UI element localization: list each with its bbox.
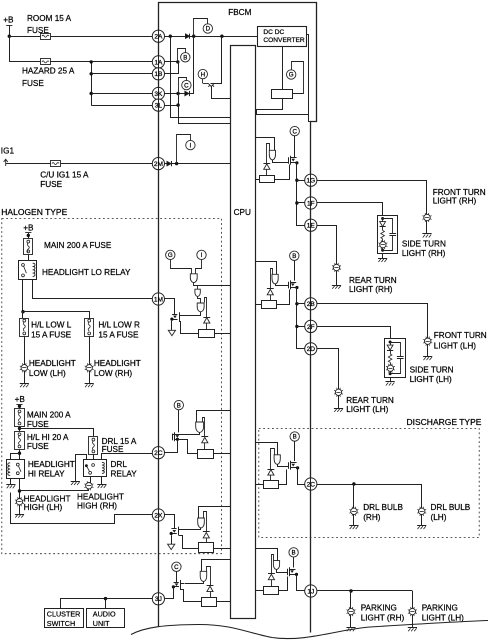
svg-text:IG1: IG1 — [1, 147, 15, 156]
diode clamp cell E — [267, 144, 270, 164]
svg-text:B: B — [292, 253, 296, 260]
wire FET out to 1J — [297, 575, 305, 591]
svg-text:1G: 1G — [306, 178, 315, 185]
wire hazard fuse to 1A — [9, 61, 152, 63]
wire FET source to 2C — [165, 440, 178, 453]
svg-text:DRL: DRL — [111, 460, 128, 469]
svg-text:LIGHT (LH): LIGHT (LH) — [410, 375, 452, 384]
svg-text:CLUSTER: CLUSTER — [47, 609, 81, 618]
wire 1B joins 1A — [165, 62, 179, 74]
svg-text:2F: 2F — [307, 324, 315, 331]
bulb REAR TURN LIGHT RH — [333, 264, 339, 270]
connector 1F — [305, 197, 317, 209]
svg-text:2C: 2C — [154, 450, 163, 457]
FET Q8 (parking driver) — [287, 569, 289, 576]
letter B circle (cell G discharge) — [290, 432, 299, 441]
wire capsule to FET drain cell D — [185, 582, 204, 584]
svg-text:15 A FUSE: 15 A FUSE — [31, 330, 72, 339]
svg-text:FUSE: FUSE — [22, 79, 44, 88]
svg-text:2X: 2X — [154, 512, 163, 519]
wire +B to main fuse — [28, 233, 30, 239]
fuse C/U IG1 15A — [51, 161, 61, 167]
svg-text:REAR TURN: REAR TURN — [346, 396, 394, 405]
svg-text:1J: 1J — [307, 588, 314, 595]
connector 2F — [305, 320, 317, 332]
DISCHARGE TYPE dashed box — [259, 428, 479, 537]
wire fuse to headlight low LH — [24, 336, 26, 365]
wire CPU corner to trunk — [256, 115, 309, 122]
svg-text:SWITCH: SWITCH — [47, 619, 75, 628]
svg-text:HEADLIGHT: HEADLIGHT — [28, 460, 75, 469]
SIDE TURN LIGHT LH assembly — [385, 339, 406, 378]
svg-text:AUDIO: AUDIO — [93, 609, 116, 618]
FET Q4 (3J driver) — [174, 582, 179, 584]
wire HI relay to headlight high LH — [19, 478, 21, 498]
svg-text:+B: +B — [23, 224, 34, 233]
wire diode to resistor — [206, 323, 208, 329]
diode clamp cell F — [271, 269, 273, 289]
svg-text:I: I — [201, 252, 203, 259]
svg-text:MAIN 200 A FUSE: MAIN 200 A FUSE — [44, 241, 112, 250]
gate capsule cell F — [272, 274, 278, 284]
connector 1E — [305, 219, 317, 231]
letter I circle and tap — [177, 135, 191, 164]
transistor H driver — [202, 79, 204, 84]
wire capsule to gate — [173, 433, 200, 437]
wire FET source to resistor cell D — [181, 589, 202, 602]
gate capsule cell G — [274, 455, 280, 465]
svg-text:1B: 1B — [154, 71, 163, 78]
wire 2X return path — [88, 489, 90, 491]
wire capsule to gate cell G — [278, 465, 289, 467]
svg-text:HIGH (RH): HIGH (RH) — [77, 501, 117, 510]
wire to 1B — [91, 73, 152, 75]
gate capsule 3 — [197, 303, 204, 312]
wire resistor to FET source cell F — [277, 290, 290, 305]
letter D circle and tap — [194, 19, 208, 37]
connector 2D — [305, 343, 317, 355]
lamp HEADLIGHT LOW LH — [21, 365, 27, 371]
sense resistor cell B — [198, 450, 214, 459]
CLUSTER SWITCH box — [45, 609, 84, 628]
wire diode to resistor cell F — [270, 295, 272, 301]
letter I circle (halogen logic) — [197, 250, 206, 259]
wire diode to resistor cell G — [270, 475, 272, 481]
diode clamp cell H — [272, 555, 274, 574]
wire FET out to 2B 2F 2D — [297, 288, 305, 349]
svg-text:2B: 2B — [307, 301, 316, 308]
svg-text:+B: +B — [3, 16, 14, 25]
wire resistor to CPU — [214, 333, 230, 335]
wire resistor to CPU cell G — [255, 484, 264, 486]
svg-text:HEADLIGHT: HEADLIGHT — [29, 359, 76, 368]
wire CPU to capsule cell E — [256, 138, 275, 151]
svg-text:HEADLIGHT: HEADLIGHT — [94, 359, 141, 368]
connector 2A — [152, 30, 164, 42]
diode clamp cell C — [204, 512, 207, 532]
svg-text:G: G — [289, 72, 294, 79]
ground rear turn LH — [338, 396, 340, 409]
svg-text:G: G — [168, 252, 173, 259]
wire +B stem — [9, 25, 11, 62]
svg-text:(RH): (RH) — [363, 513, 381, 522]
wire DRL fuse to relay — [93, 454, 95, 459]
sense resistor cell D — [202, 598, 217, 607]
diode clamp cell B — [203, 418, 205, 437]
ground headlight low LH — [24, 371, 26, 384]
svg-text:DRL BULB: DRL BULB — [363, 503, 403, 512]
wire DRL relay to headlight high RH — [90, 476, 92, 482]
svg-text:3J: 3J — [155, 596, 162, 603]
wire capsule to gate cell F — [276, 284, 289, 286]
gate capsule cell E — [269, 150, 275, 160]
HALOGEN TYPE dashed box — [2, 219, 222, 554]
wire LO relay coil to 1M — [33, 280, 153, 299]
FET Q5 (turn RH driver) — [288, 157, 290, 164]
bulb FRONT TURN LIGHT LH — [425, 338, 431, 344]
svg-text:ROOM 15 A: ROOM 15 A — [27, 14, 72, 23]
letter B circle (cell H parking) — [289, 548, 298, 557]
svg-text:CONVERTER: CONVERTER — [263, 37, 305, 44]
svg-text:C: C — [174, 564, 179, 571]
wire capsule to gate cell H — [277, 570, 288, 573]
bulb DRL RH — [351, 508, 357, 514]
fuse H/L HI 20A — [15, 432, 25, 450]
ground side turn RH — [382, 254, 384, 259]
gate capsule cell H — [273, 561, 279, 570]
svg-text:LIGHT (RH): LIGHT (RH) — [349, 285, 393, 294]
diode on 2M line — [167, 161, 171, 166]
wire fuse to headlight low RH — [89, 336, 91, 365]
wire +B to main fuse 2 — [19, 404, 21, 408]
wire diode to resistor cell D — [210, 592, 212, 598]
wire resistor to CPU cell B — [213, 453, 230, 455]
svg-text:LIGHT (RH): LIGHT (RH) — [361, 614, 405, 623]
svg-text:1F: 1F — [307, 200, 315, 207]
ground headlight low RH — [89, 371, 91, 384]
svg-text:FBCM: FBCM — [228, 8, 251, 17]
wire 2A branch down to CPU — [171, 37, 231, 118]
wire CPU to cell B capsule — [197, 411, 231, 423]
wire resistor to CPU cell C — [213, 548, 230, 550]
wire DC-DC bottom to resistor — [282, 46, 284, 90]
fuse ROOM 15A — [41, 34, 51, 40]
wire 2X to FET — [165, 515, 175, 529]
svg-text:C: C — [184, 82, 189, 89]
svg-text:RELAY: RELAY — [111, 470, 138, 479]
wire CPU to capsule cell G — [256, 443, 278, 455]
svg-text:B: B — [292, 550, 296, 557]
letter C circle (cell E) — [290, 126, 299, 135]
FET Q3 (2X driver) — [171, 528, 176, 530]
FET Q1 (1M driver) — [172, 314, 177, 316]
letter C circle and tap — [179, 78, 187, 94]
gate capsule 2 — [195, 289, 200, 296]
bulb FRONT TURN LIGHT RH — [424, 214, 430, 220]
svg-text:B: B — [293, 434, 297, 441]
svg-text:FRONT TURN: FRONT TURN — [434, 331, 487, 340]
svg-text:LIGHT (LH): LIGHT (LH) — [346, 405, 388, 414]
ground DRL coil — [101, 476, 103, 484]
wire 2M into module — [165, 163, 231, 165]
bulb REAR TURN LIGHT LH — [335, 389, 341, 395]
page break curve — [131, 621, 488, 639]
wire LO relay contact down — [22, 280, 24, 312]
svg-text:DC DC: DC DC — [263, 29, 284, 36]
wire capsule to FET drain — [182, 528, 201, 530]
svg-text:B: B — [183, 55, 187, 62]
wire 3J to FET — [165, 587, 174, 599]
wire B to FET cell H — [293, 557, 295, 567]
ground arrow cell C — [171, 535, 173, 544]
svg-text:LIGHT (LH): LIGHT (LH) — [434, 341, 476, 350]
letter H circle — [198, 69, 207, 78]
svg-text:B: B — [177, 402, 181, 409]
svg-text:HI RELAY: HI RELAY — [28, 470, 65, 479]
wire FET source to resistor — [180, 321, 199, 334]
connector 1M — [152, 293, 164, 305]
svg-text:+B: +B — [15, 395, 26, 404]
wire 2A diode branch down to 3K diode node — [193, 36, 195, 93]
FET Q6 (turn LH driver) — [288, 282, 290, 289]
diode clamp cell G — [271, 449, 275, 470]
svg-text:2A: 2A — [154, 34, 163, 41]
ground front turn RH — [426, 221, 428, 234]
wire 1E to rear turn RH — [317, 226, 337, 265]
ground rear turn RH — [336, 271, 338, 286]
fuse H/L LOW L 15A — [20, 319, 29, 337]
wire branch to DRL fuse — [20, 429, 94, 437]
gate capsule cell D — [200, 571, 207, 581]
wire main fuse to H/L HI fuse — [19, 426, 21, 432]
wire high lamps link — [20, 489, 89, 491]
letter G circle (DC-DC) — [287, 70, 296, 79]
wire FET out to 1G 1F 1E — [297, 163, 305, 226]
wire 3J to cluster switch and audio unit — [61, 599, 153, 609]
wire main fuse to LO relay — [28, 254, 30, 260]
bulb PARKING LIGHT LH — [409, 608, 415, 614]
wire 1G to front turn RH — [317, 181, 427, 215]
fuse H/L LOW R 15A — [85, 319, 94, 337]
wire resistor to FET source cell E — [275, 165, 290, 180]
gate capsule cell C — [198, 518, 205, 528]
connector 1J — [305, 585, 317, 597]
svg-text:H: H — [201, 71, 205, 78]
wire CPU to cell A gates — [198, 285, 231, 287]
ground HI relay coil — [10, 478, 12, 485]
sense resistor R1 — [199, 330, 215, 338]
svg-text:(LH): (LH) — [431, 513, 447, 522]
letter B circle and tap — [178, 49, 186, 62]
wire to H/L LOW L fuse — [22, 312, 24, 318]
relay HEADLIGHT HI — [7, 460, 25, 479]
wire H transistor to CPU — [212, 87, 231, 99]
svg-text:DRL BULB: DRL BULB — [431, 503, 471, 512]
svg-text:LIGHT (RH): LIGHT (RH) — [433, 197, 477, 206]
wire 1A to tap — [165, 61, 178, 63]
CPU block — [231, 46, 256, 619]
svg-text:HAZARD 25 A: HAZARD 25 A — [22, 67, 75, 76]
connector 2B — [305, 298, 317, 310]
hazard feed vertical — [91, 62, 93, 105]
wire G/I to gate funnel — [171, 260, 192, 272]
connector 2C — [305, 478, 317, 490]
wire 2B to front turn LH — [317, 304, 428, 339]
lamp HEADLIGHT LOW RH — [86, 365, 92, 371]
diode D1 clamp — [205, 298, 207, 318]
ground DRL RH — [353, 515, 355, 526]
wire DRL coil to 2C — [102, 454, 153, 460]
svg-text:2M: 2M — [154, 161, 163, 168]
connector 1G — [305, 174, 317, 186]
wire FET out to 2C — [298, 468, 305, 485]
svg-text:D: D — [206, 26, 211, 33]
ground headlight high LH — [19, 505, 21, 514]
wire B to FET drain — [178, 410, 180, 433]
svg-text:3K: 3K — [154, 91, 163, 98]
FBCM module outline — [159, 3, 317, 633]
G bracket to resistor — [292, 62, 304, 94]
svg-text:1M: 1M — [154, 296, 163, 303]
relay DRL — [84, 460, 107, 477]
wire resistor to FET source cell G — [279, 470, 287, 485]
connector 1A — [152, 56, 164, 68]
wire resistor to CPU cell D — [217, 601, 231, 603]
wire resistor to CPU cell E — [255, 179, 259, 181]
wire B to FET cell G — [294, 441, 296, 461]
lamp HEADLIGHT HIGH RH — [86, 483, 92, 489]
gate capsule cell B — [196, 422, 204, 432]
wire diode to resistor cell E — [266, 169, 268, 175]
wire FET source to resistor cell C — [179, 536, 199, 549]
wire C to FET cell E — [294, 136, 296, 158]
AUDIO UNIT box — [87, 609, 125, 628]
svg-text:FUSE: FUSE — [102, 445, 124, 454]
wire DRL contact common to ground — [76, 455, 87, 482]
IG1 arrow — [4, 159, 8, 166]
diode on 3K line — [185, 91, 189, 96]
connector 2M — [152, 158, 164, 170]
svg-text:H/L LOW L: H/L LOW L — [31, 321, 72, 330]
fuse DRL 15A — [89, 437, 98, 455]
svg-text:HALOGEN TYPE: HALOGEN TYPE — [1, 207, 67, 217]
svg-text:DISCHARGE TYPE: DISCHARGE TYPE — [407, 417, 482, 427]
relay HEADLIGHT LO — [19, 261, 37, 280]
wire 3K-3L link — [178, 94, 180, 106]
wire capsule to gate cell E — [273, 160, 289, 163]
wire 2F to side turn LH — [317, 327, 391, 339]
wire CPU to capsule cell H — [256, 549, 278, 561]
wire to 3L — [91, 105, 152, 107]
svg-text:PARKING: PARKING — [361, 603, 397, 612]
wire 1J to parking lights — [317, 590, 413, 592]
wire diode to resistor cell H — [271, 580, 273, 586]
svg-text:LIGHT (LH): LIGHT (LH) — [422, 614, 464, 623]
diode on 2A line — [185, 34, 189, 39]
SIDE TURN LIGHT RH assembly — [378, 216, 398, 254]
wire resistor to CPU cell H — [255, 590, 263, 592]
svg-text:HEADLIGHT: HEADLIGHT — [77, 493, 124, 502]
wire CPU to cell C capsule — [199, 507, 231, 519]
bulb PARKING LIGHT RH — [348, 608, 354, 614]
wire 2D to rear turn LH — [317, 349, 339, 390]
ground parking RH — [350, 615, 352, 628]
svg-text:15 A FUSE: 15 A FUSE — [98, 330, 139, 339]
wire resistor to FET source cell H — [279, 577, 288, 591]
sense resistor cell C — [199, 543, 214, 553]
connector 2X — [152, 509, 164, 521]
svg-text:C/U IG1 15 A: C/U IG1 15 A — [40, 170, 89, 179]
svg-text:H/L HI 20 A: H/L HI 20 A — [27, 433, 69, 442]
wire B to FET cell F — [294, 261, 296, 281]
wire from DC-DC right to trunk — [307, 35, 311, 122]
svg-text:HIGH (LH): HIGH (LH) — [24, 503, 63, 512]
sense resistor cell E — [260, 176, 275, 183]
svg-text:C: C — [292, 128, 297, 135]
wire diode to resistor cell C — [206, 538, 208, 543]
wire 3L to CPU — [165, 105, 179, 107]
lamp HEADLIGHT HIGH LH — [16, 499, 22, 505]
ground arrow cell A — [171, 321, 173, 331]
sense resistor cell H — [264, 587, 279, 595]
svg-text:FRONT TURN: FRONT TURN — [433, 188, 486, 197]
connector 3K — [152, 87, 164, 99]
svg-text:LIGHT (RH): LIGHT (RH) — [402, 249, 446, 258]
FET Q2 (2C driver) — [172, 434, 174, 441]
svg-text:1A: 1A — [154, 59, 163, 66]
wire +B to room fuse to 2A — [9, 36, 152, 38]
letter C circle (cell D) — [172, 562, 181, 571]
wire CPU to capsule cell F — [256, 262, 277, 275]
sense resistor cell F — [262, 301, 277, 309]
diode clamp cell D — [207, 567, 211, 586]
wire FET drain to capsule3 — [183, 312, 201, 316]
letter B circle (cell F) — [290, 251, 299, 260]
svg-text:PARKING: PARKING — [422, 603, 458, 612]
svg-text:SIDE TURN: SIDE TURN — [410, 365, 454, 374]
fuse HAZARD 25A — [41, 59, 51, 65]
FET Q7 (DRL driver) — [288, 462, 290, 469]
fuse MAIN 200 A (2) — [15, 409, 25, 427]
svg-text:LOW (LH): LOW (LH) — [29, 369, 66, 378]
svg-text:H/L LOW R: H/L LOW R — [98, 321, 140, 330]
wire 1M to FET — [165, 299, 175, 315]
ground parking LH — [412, 615, 414, 628]
wire 2C to DRL bulbs — [317, 484, 422, 486]
svg-text:SIDE TURN: SIDE TURN — [402, 240, 446, 249]
connector 3J — [152, 593, 164, 605]
svg-text:CPU: CPU — [234, 208, 251, 217]
wire capsule1 to capsule2 — [194, 283, 198, 290]
connector 3L — [152, 99, 164, 111]
svg-text:REAR TURN: REAR TURN — [349, 276, 397, 285]
gate capsule 1 — [190, 274, 197, 283]
wire resistor to CPU top — [257, 99, 283, 115]
svg-text:2D: 2D — [307, 346, 316, 353]
svg-text:1E: 1E — [307, 223, 316, 230]
letter B circle (cell B) — [174, 400, 183, 409]
svg-text:3L: 3L — [155, 103, 163, 110]
ground front turn LH — [427, 344, 429, 356]
wire HI fuse to HI relay — [19, 449, 21, 459]
letter G circle (halogen logic) — [166, 250, 175, 259]
wire diode to resistor cell B — [204, 443, 206, 450]
wire 1F to side turn RH — [317, 203, 383, 216]
wire C to FET — [176, 572, 178, 583]
wire 2A second branch down to H transistor — [211, 37, 222, 84]
svg-text:2C: 2C — [307, 481, 316, 488]
svg-text:FUSE: FUSE — [40, 180, 62, 189]
